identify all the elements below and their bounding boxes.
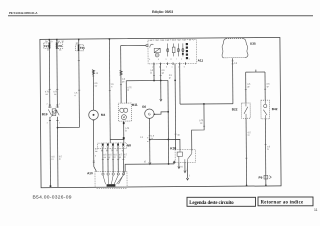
svg-text:br: br — [151, 137, 153, 140]
svg-text:B19: B19 — [42, 112, 48, 116]
svg-text:2: 2 — [181, 59, 182, 61]
svg-text:F21: F21 — [44, 44, 49, 48]
svg-text:32: 32 — [144, 161, 147, 163]
svg-text:B22: B22 — [232, 107, 238, 111]
svg-text:br: br — [59, 158, 61, 161]
svg-text:U35: U35 — [250, 42, 256, 46]
svg-text:gr: gr — [169, 76, 171, 79]
svg-text:sw: sw — [200, 123, 203, 125]
svg-text:A11: A11 — [198, 58, 204, 62]
svg-text:85: 85 — [161, 40, 163, 42]
svg-text:5: 5 — [149, 59, 150, 61]
svg-text:br: br — [52, 158, 54, 161]
svg-text:F8: F8 — [58, 44, 62, 48]
svg-text:bl: bl — [114, 157, 116, 159]
svg-text:85: 85 — [189, 40, 191, 42]
svg-text:2: 2 — [186, 169, 188, 171]
svg-text:br: br — [248, 134, 250, 137]
svg-text:br: br — [124, 156, 126, 159]
svg-text:7: 7 — [176, 59, 177, 61]
svg-text:sw: sw — [104, 157, 107, 159]
svg-text:2: 2 — [152, 67, 153, 69]
svg-text:gr: gr — [267, 85, 269, 88]
svg-text:8: 8 — [170, 59, 171, 61]
svg-text:PE 54.00-B-0050-01.A: PE 54.00-B-0050-01.A — [9, 11, 38, 15]
svg-text:K38: K38 — [170, 146, 176, 150]
svg-text:3: 3 — [47, 122, 48, 124]
svg-text:6: 6 — [158, 59, 159, 61]
svg-text:1: 1 — [178, 66, 179, 68]
svg-text:bl: bl — [128, 90, 130, 92]
svg-text:30: 30 — [156, 40, 158, 42]
svg-text:bl: bl — [150, 73, 152, 75]
svg-text:30: 30 — [111, 150, 114, 152]
svg-text:4: 4 — [59, 122, 60, 124]
svg-text:sw: sw — [45, 94, 48, 96]
svg-text:N8: N8 — [127, 143, 131, 147]
svg-text:87: 87 — [150, 40, 152, 42]
svg-text:1: 1 — [189, 175, 191, 177]
svg-text:sw: sw — [95, 151, 98, 153]
svg-text:B54.00-0326-09: B54.00-0326-09 — [33, 195, 72, 201]
svg-text:Edição: 05/03: Edição: 05/03 — [152, 10, 173, 14]
svg-text:8: 8 — [159, 67, 160, 69]
svg-text:5: 5 — [184, 66, 185, 68]
svg-text:gn: gn — [162, 72, 165, 74]
svg-text:85: 85 — [106, 150, 109, 152]
svg-text:G6: G6 — [142, 105, 146, 109]
svg-text:1: 1 — [193, 40, 194, 42]
svg-text:A10: A10 — [87, 171, 93, 175]
svg-text:P9: P9 — [258, 176, 262, 180]
svg-text:3: 3 — [165, 59, 166, 61]
svg-text:br: br — [125, 129, 127, 132]
svg-text:4: 4 — [171, 67, 172, 69]
svg-text:30: 30 — [177, 135, 180, 137]
svg-text:Retornar ao índice: Retornar ao índice — [261, 200, 304, 205]
svg-text:11: 11 — [314, 208, 318, 212]
svg-text:gn: gn — [119, 157, 122, 159]
svg-text:br: br — [267, 148, 269, 151]
svg-text:15: 15 — [96, 73, 99, 75]
svg-text:F31: F31 — [80, 46, 85, 50]
svg-text:gn: gn — [122, 81, 125, 83]
svg-text:gn: gn — [247, 86, 250, 88]
svg-text:30: 30 — [50, 41, 53, 43]
svg-text:6: 6 — [166, 67, 167, 69]
svg-text:Legenda deste circuito: Legenda deste circuito — [189, 201, 234, 206]
svg-text:16: 16 — [47, 50, 50, 52]
svg-text:31: 31 — [180, 166, 183, 168]
svg-text:86: 86 — [183, 40, 185, 42]
svg-text:0.5: 0.5 — [234, 63, 238, 65]
svg-text:G: G — [148, 112, 151, 116]
svg-text:sw: sw — [54, 94, 57, 96]
svg-text:1.5: 1.5 — [140, 137, 144, 139]
svg-text:M4: M4 — [101, 113, 106, 117]
svg-text:2: 2 — [47, 103, 48, 105]
svg-text:86: 86 — [101, 150, 104, 152]
svg-text:30: 30 — [178, 40, 180, 42]
svg-text:M11: M11 — [132, 103, 138, 107]
svg-text:B42: B42 — [272, 107, 278, 111]
svg-text:4: 4 — [189, 59, 190, 61]
svg-text:87: 87 — [116, 150, 119, 152]
svg-text:sw: sw — [95, 85, 98, 87]
svg-text:86: 86 — [167, 40, 169, 42]
svg-text:gr: gr — [109, 156, 111, 159]
svg-text:1: 1 — [59, 103, 60, 105]
svg-text:4: 4 — [95, 155, 97, 157]
svg-text:16: 16 — [59, 50, 62, 52]
svg-text:30: 30 — [61, 41, 64, 43]
